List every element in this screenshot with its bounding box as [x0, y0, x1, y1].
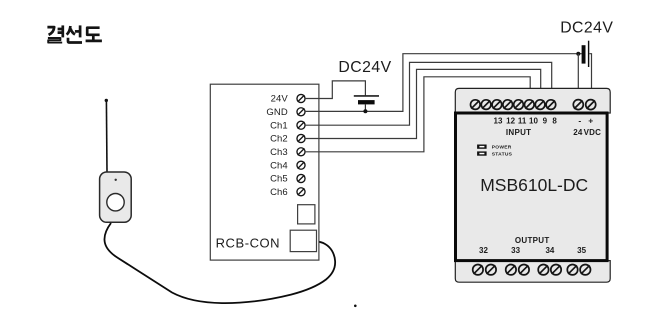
output screws	[473, 265, 591, 275]
svg-text:Ch3: Ch3	[270, 147, 288, 158]
wire 24V to battery	[305, 81, 365, 99]
title 결선도	[47, 25, 102, 42]
svg-text:13: 13	[494, 117, 503, 126]
battery B2 plus plate	[588, 41, 589, 67]
svg-text:DC24V: DC24V	[560, 19, 613, 36]
battery B1 plus plate	[354, 95, 379, 97]
svg-text:24VDC: 24VDC	[573, 128, 601, 137]
svg-text:Ch5: Ch5	[270, 174, 288, 185]
svg-text:-: -	[578, 115, 581, 125]
remote transmitter	[100, 172, 132, 222]
svg-text:INPUT: INPUT	[506, 128, 532, 137]
svg-text:Ch4: Ch4	[270, 160, 288, 171]
svg-text:Ch1: Ch1	[270, 120, 288, 131]
module body MSB610L-DC	[456, 113, 608, 261]
svg-text:POWER: POWER	[492, 145, 512, 151]
module top terminal strip	[455, 88, 610, 113]
output pin numbers 32 33 34 35	[479, 246, 587, 255]
wire Ch1 to input 8	[305, 62, 552, 125]
wire minus to module	[577, 54, 579, 100]
remote cable	[104, 223, 335, 303]
polarity marks - +	[578, 115, 593, 125]
RCB-CON connector	[290, 230, 316, 251]
module input screws	[471, 100, 556, 110]
svg-text:8: 8	[552, 117, 557, 126]
svg-text:34: 34	[545, 246, 554, 255]
receiver small connector	[298, 205, 315, 224]
receiver terminal screws	[297, 94, 305, 195]
svg-text:9: 9	[543, 117, 548, 126]
module 24VDC screws	[573, 100, 595, 110]
svg-text:+: +	[588, 115, 593, 125]
svg-text:33: 33	[511, 246, 520, 255]
wire Ch2 to input 9	[305, 69, 541, 138]
svg-text:STATUS: STATUS	[492, 152, 513, 158]
antenna	[105, 99, 108, 172]
svg-text:Ch2: Ch2	[270, 134, 288, 145]
svg-text:24V: 24V	[271, 94, 289, 105]
POWER LED	[477, 145, 487, 149]
wire Ch3 to input 10	[305, 77, 530, 152]
svg-text:MSB610L-DC: MSB610L-DC	[480, 175, 588, 195]
stray dot	[354, 305, 357, 308]
battery B2 minus bar	[582, 45, 586, 63]
svg-text:GND: GND	[266, 107, 287, 118]
svg-text:12: 12	[506, 117, 515, 126]
svg-text:11: 11	[518, 117, 527, 126]
svg-text:Ch6: Ch6	[270, 187, 288, 198]
wire GND to battery minus bus	[305, 54, 582, 112]
svg-text:OUTPUT: OUTPUT	[515, 236, 550, 245]
battery B2 junction	[576, 52, 580, 56]
receiver terminal labels	[266, 94, 288, 198]
svg-text:DC24V: DC24V	[338, 59, 391, 76]
module bottom terminal strip	[455, 261, 610, 283]
svg-text:10: 10	[529, 117, 538, 126]
svg-text:RCB-CON: RCB-CON	[216, 235, 281, 250]
STATUS LED	[477, 151, 487, 155]
wire plus to module	[589, 54, 591, 100]
battery B1 stem and junction	[364, 104, 366, 111]
battery B1 minus bar	[358, 100, 375, 104]
svg-text:35: 35	[577, 246, 586, 255]
receiver RCB-CON box	[210, 84, 319, 260]
svg-text:32: 32	[479, 246, 488, 255]
input pin numbers 13 12 11 10 9 8	[494, 117, 558, 126]
